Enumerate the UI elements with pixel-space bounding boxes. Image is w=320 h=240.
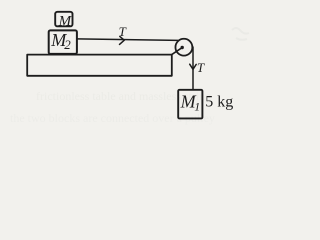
svg-text:M: M (58, 13, 73, 29)
arrowhead T on vertical string (190, 64, 197, 69)
table (27, 55, 172, 76)
faint bleed-through smudge top right (232, 28, 249, 40)
paper background (0, 0, 256, 130)
svg-text:1: 1 (194, 100, 200, 114)
svg-text:T: T (197, 60, 205, 75)
svg-text:5 kg: 5 kg (205, 93, 233, 110)
block M (small top block) (55, 12, 72, 26)
vertical string from pulley to M1 (192, 47, 194, 90)
string from M2 to pulley (77, 39, 178, 41)
svg-text:2: 2 (64, 37, 71, 52)
pulley bracket to table corner (172, 48, 182, 55)
svg-text:T: T (119, 24, 127, 39)
pulley axle dot (181, 46, 184, 49)
pulley wheel (175, 39, 192, 56)
block M2 (49, 30, 77, 54)
hanging mass M1 box (178, 90, 202, 119)
arrowhead T on horizontal string (120, 36, 125, 44)
